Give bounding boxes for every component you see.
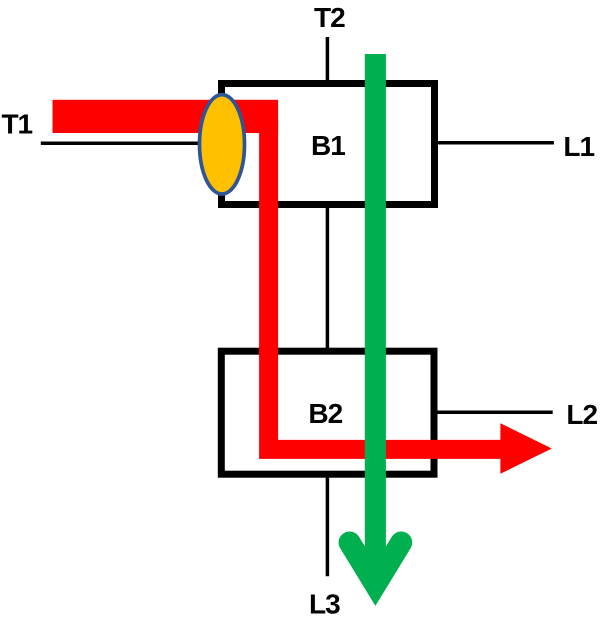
svg-text:L3: L3 [309, 589, 340, 620]
wire between B1 and B2 [326, 203, 330, 352]
red feed bar (thick horizontal) [53, 100, 279, 133]
wire L1 line [436, 141, 554, 145]
svg-text:B1: B1 [311, 130, 345, 161]
wire T2 line [326, 37, 330, 84]
svg-text:T2: T2 [314, 2, 345, 33]
box B2 [221, 351, 434, 474]
green arrow shaft [365, 54, 386, 564]
wire L3 line [326, 473, 330, 576]
red arrowhead [500, 423, 551, 474]
valve ellipse [200, 95, 245, 194]
svg-text:L1: L1 [563, 131, 594, 162]
box B1 [222, 84, 435, 205]
svg-text:B2: B2 [308, 398, 342, 429]
svg-text:L2: L2 [566, 399, 597, 430]
red elbow arrow shaft [269, 120, 502, 449]
wire T1 line [41, 141, 220, 145]
green arrowhead [350, 543, 402, 585]
svg-text:T1: T1 [1, 109, 32, 140]
wire L2 line [436, 411, 553, 415]
